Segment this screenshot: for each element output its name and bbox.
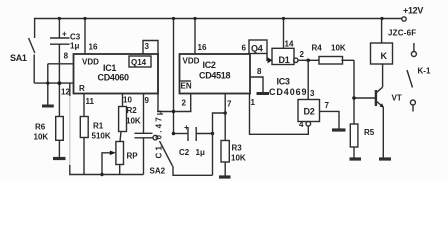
wire R4 to VT base (354, 60, 375, 98)
svg-text:K-1: K-1 (418, 67, 431, 76)
node rail-IC1 pin16 (83, 17, 86, 20)
contact K-1 (413, 43, 415, 52)
IC IC2 CD4518 (180, 54, 251, 94)
ground IC2 pin8 (257, 92, 270, 95)
wire IC1 pin12 reset line (34, 82, 73, 84)
svg-text:C2: C2 (179, 148, 190, 157)
pin 6 Q4 output box of IC2 (249, 40, 267, 54)
wire IC1 pin11 (83, 94, 85, 117)
node rail-IC3 pin14 (282, 17, 285, 20)
svg-text:VDD: VDD (183, 57, 200, 66)
svg-text:10K: 10K (331, 44, 346, 53)
ground below VT emitter (379, 157, 391, 160)
svg-text:10K: 10K (231, 154, 246, 163)
svg-text:1μ: 1μ (70, 42, 79, 51)
svg-text:CD4518: CD4518 (199, 71, 231, 81)
svg-text:IC1: IC1 (103, 63, 116, 73)
node rail-IC2 pin16 (193, 17, 196, 20)
ground below R5 (350, 157, 362, 160)
svg-text:+: + (184, 123, 189, 132)
resistor R4 10K (319, 57, 343, 65)
svg-text:10K: 10K (126, 117, 141, 126)
node D1 output bubble pin2 (294, 58, 298, 62)
IC IC1 CD4060 (74, 54, 159, 94)
svg-text:510K: 510K (92, 132, 111, 141)
svg-text:3: 3 (145, 42, 150, 51)
svg-text:EN: EN (181, 82, 192, 91)
svg-text:SA2: SA2 (150, 167, 166, 176)
svg-text:VDD: VDD (82, 58, 99, 67)
svg-text:D1: D1 (279, 55, 290, 65)
svg-text:RP: RP (127, 152, 139, 161)
svg-text:2: 2 (182, 99, 187, 108)
svg-text:C1 0.47μ: C1 0.47μ (155, 108, 164, 159)
resistor R2 10K (119, 107, 127, 132)
svg-text:6: 6 (242, 44, 247, 53)
svg-text:R1: R1 (93, 122, 104, 131)
wire IC3 pin7 VSS (320, 111, 340, 128)
svg-text:VT: VT (392, 94, 402, 103)
capacitor C3 1u (58, 19, 60, 39)
wire IC1 pin8 VSS (48, 63, 74, 65)
svg-text:7: 7 (227, 100, 232, 109)
svg-text:R6: R6 (35, 123, 46, 132)
wire IC1 pin16 (84, 19, 86, 55)
inverter D1 of IC3 (272, 48, 294, 64)
svg-text:R3: R3 (232, 144, 243, 153)
wire rail to SA2/C2 node (173, 19, 175, 134)
svg-text:10: 10 (123, 96, 132, 105)
terminal +12V (402, 17, 406, 21)
svg-text:11: 11 (86, 97, 95, 106)
svg-text:K: K (381, 51, 388, 61)
potentiometer RP (116, 142, 124, 165)
svg-text:1: 1 (251, 98, 256, 107)
svg-text:R: R (79, 84, 85, 93)
resistor R5 (353, 98, 355, 124)
svg-text:1μ: 1μ (196, 148, 205, 157)
node rail-SA2 line (172, 17, 175, 20)
svg-text:+12V: +12V (403, 6, 423, 16)
svg-text:R2: R2 (127, 106, 138, 115)
svg-text:8: 8 (64, 52, 69, 61)
node D2 output bubble pin4 (306, 121, 311, 126)
svg-text:+: + (62, 30, 67, 39)
svg-text:JZC-6F: JZC-6F (388, 29, 416, 38)
svg-text:12: 12 (61, 88, 70, 97)
svg-text:9: 9 (145, 96, 150, 105)
svg-text:4: 4 (299, 120, 304, 129)
svg-text:D2: D2 (304, 107, 315, 117)
svg-text:2: 2 (300, 50, 305, 59)
wire IC3 pin14 VDD (283, 19, 285, 49)
svg-text:14: 14 (285, 40, 294, 49)
wire IC2 pin7 (224, 94, 226, 141)
ground below R3 (219, 175, 231, 178)
svg-text:16: 16 (198, 43, 207, 52)
pin 3 Q14 output box of IC1 (129, 56, 151, 67)
capacitor C1 0.47u (135, 132, 153, 134)
wire IC2 pin8 VSS (250, 77, 263, 92)
svg-text:Q4: Q4 (251, 44, 263, 54)
svg-text:7: 7 (325, 101, 330, 110)
svg-text:16: 16 (89, 43, 98, 52)
resistor R1 510K (80, 117, 88, 138)
svg-text:Q14: Q14 (131, 58, 147, 67)
node C2-right junction (211, 132, 214, 135)
svg-text:CD4060: CD4060 (98, 73, 130, 83)
resistor R6 10K (56, 117, 64, 141)
svg-text:R5: R5 (364, 128, 375, 137)
svg-text:SA1: SA1 (10, 53, 27, 63)
capacitor C2 1u (187, 127, 189, 141)
svg-text:IC3: IC3 (277, 77, 290, 87)
node rail-relay K (380, 17, 383, 20)
switch SA2 (153, 135, 158, 140)
resistor R3 10K (221, 141, 229, 163)
svg-text:10K: 10K (34, 133, 49, 142)
node RP wiper-rail (100, 173, 103, 176)
wire bottom rail left (69, 83, 71, 96)
svg-text:R4: R4 (312, 44, 323, 53)
inverter D2 of IC3 (307, 60, 309, 99)
wire Q4 to D1 input (267, 54, 272, 61)
wire IC2 pin1 clock from D2 (250, 94, 309, 135)
wire IC2 pin2 (190, 94, 192, 112)
node rail-C3 (58, 17, 61, 20)
wire IC1 pin9 (143, 94, 145, 134)
wire top +12V rail (35, 19, 402, 39)
wire IC2 pin16 (194, 19, 196, 55)
relay K JZC-6F (381, 19, 383, 44)
wire IC1 pin3 Q14 output (143, 41, 192, 112)
svg-text:IC2: IC2 (203, 60, 216, 70)
ground left (47, 64, 49, 105)
transistor VT (375, 90, 377, 106)
switch SA1 (29, 38, 35, 53)
svg-text:CD4069: CD4069 (269, 87, 307, 97)
ground IC3 pin7 (332, 128, 346, 131)
svg-text:C3: C3 (70, 33, 81, 42)
ground below R6 (53, 157, 66, 160)
svg-text:8: 8 (257, 67, 262, 76)
svg-text:3: 3 (310, 89, 315, 98)
wire IC1 pin10 (122, 94, 124, 107)
